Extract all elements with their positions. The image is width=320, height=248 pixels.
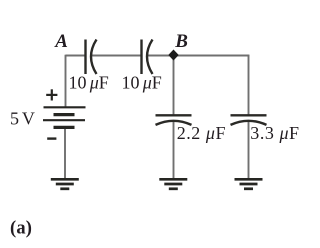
battery V1 plus sign: [46, 94, 57, 96]
capacitor C3 2.2uF curved plate: [156, 121, 192, 125]
battery V1 long plate 1: [44, 106, 86, 108]
capacitor C4 3.3uF straight plate: [231, 114, 267, 116]
svg-text:B: B: [174, 31, 188, 52]
ground 2 (C3): [159, 179, 187, 189]
capacitor C3 2.2uF straight plate: [156, 114, 192, 116]
battery V1 minus sign: [47, 137, 56, 139]
capacitor C2 10uF straight plate: [140, 40, 142, 75]
wire from C2 through node B to top-right corner: [147, 55, 249, 57]
battery V1 long plate 2: [43, 119, 85, 121]
wire battery - down to ground: [64, 128, 66, 179]
ground 1 (battery): [51, 179, 79, 189]
battery V1 short plate 2: [54, 126, 75, 129]
capacitor C2 10uF curved plate: [147, 40, 153, 75]
wire top from node A corner to C1 left plate: [66, 55, 86, 57]
battery V1 short plate 1: [54, 113, 75, 116]
wire C4 bottom to ground: [248, 122, 250, 179]
svg-text:(a): (a): [10, 219, 32, 239]
svg-text:A: A: [54, 31, 68, 52]
capacitor C4 3.3uF curved plate: [231, 121, 267, 125]
node B junction dot: [168, 50, 178, 61]
wire left vertical (A corner down to battery +): [65, 55, 67, 107]
capacitor C1 10uF straight plate: [84, 40, 86, 75]
wire node B down to C3: [173, 56, 175, 115]
capacitor C1 10uF curved plate: [91, 40, 97, 75]
svg-text:5V: 5V: [10, 108, 35, 128]
wire right vertical (top corner down to C4): [248, 55, 250, 115]
ground 3 (C4): [235, 179, 263, 189]
wire C3 bottom to ground: [173, 122, 175, 179]
wire between C1 and C2: [92, 55, 142, 57]
